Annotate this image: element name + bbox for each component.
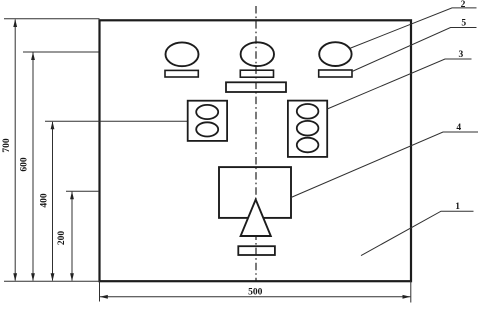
svg-text:3: 3 xyxy=(459,50,464,60)
centre dash-dot line xyxy=(255,6,257,281)
extension line 200 xyxy=(66,190,99,192)
svg-text:5: 5 xyxy=(461,19,466,29)
button group left box xyxy=(188,101,227,141)
lamp circle centre xyxy=(241,42,274,66)
panel outline (item 1) xyxy=(100,20,412,281)
operating handle triangle xyxy=(241,200,271,237)
dimension line 600 xyxy=(31,52,35,281)
right extension below panel xyxy=(410,281,412,303)
dimension line 400 xyxy=(51,121,55,281)
leader line 2 xyxy=(350,8,477,49)
name plate centre xyxy=(240,70,273,77)
svg-text:400: 400 xyxy=(40,193,50,208)
svg-text:4: 4 xyxy=(456,123,461,133)
svg-text:2: 2 xyxy=(461,0,466,10)
extension line 400 xyxy=(45,120,188,122)
name plate right (item 5) xyxy=(319,70,352,77)
instrument box (item 4) xyxy=(219,167,291,218)
leader line 3 xyxy=(327,59,471,109)
svg-text:600: 600 xyxy=(20,157,30,172)
wide plate centre xyxy=(226,82,286,92)
button right middle xyxy=(297,121,319,136)
dimension line 500 xyxy=(100,295,411,299)
button left top xyxy=(196,105,218,119)
extension line 600 xyxy=(23,51,99,53)
leader line 4 xyxy=(291,132,478,198)
button right top xyxy=(297,104,319,119)
button right bottom xyxy=(297,138,319,153)
svg-text:1: 1 xyxy=(455,202,460,212)
svg-text:500: 500 xyxy=(248,288,263,298)
name plate left xyxy=(165,70,198,77)
leader line 5 xyxy=(352,28,477,72)
lamp circle right (item 2) xyxy=(319,42,351,66)
button left bottom xyxy=(196,122,218,136)
left extension below panel xyxy=(99,281,101,302)
svg-text:700: 700 xyxy=(2,138,12,153)
button group right box (item 3) xyxy=(288,101,327,157)
svg-text:200: 200 xyxy=(57,231,67,246)
bottom extension baseline xyxy=(4,280,100,282)
dimension line 700 xyxy=(13,19,17,281)
dimension line 200 xyxy=(70,191,74,281)
leader line 1 xyxy=(361,211,474,255)
bottom small plate xyxy=(238,246,275,255)
lamp circle left xyxy=(166,42,199,66)
top extension line xyxy=(4,18,100,20)
